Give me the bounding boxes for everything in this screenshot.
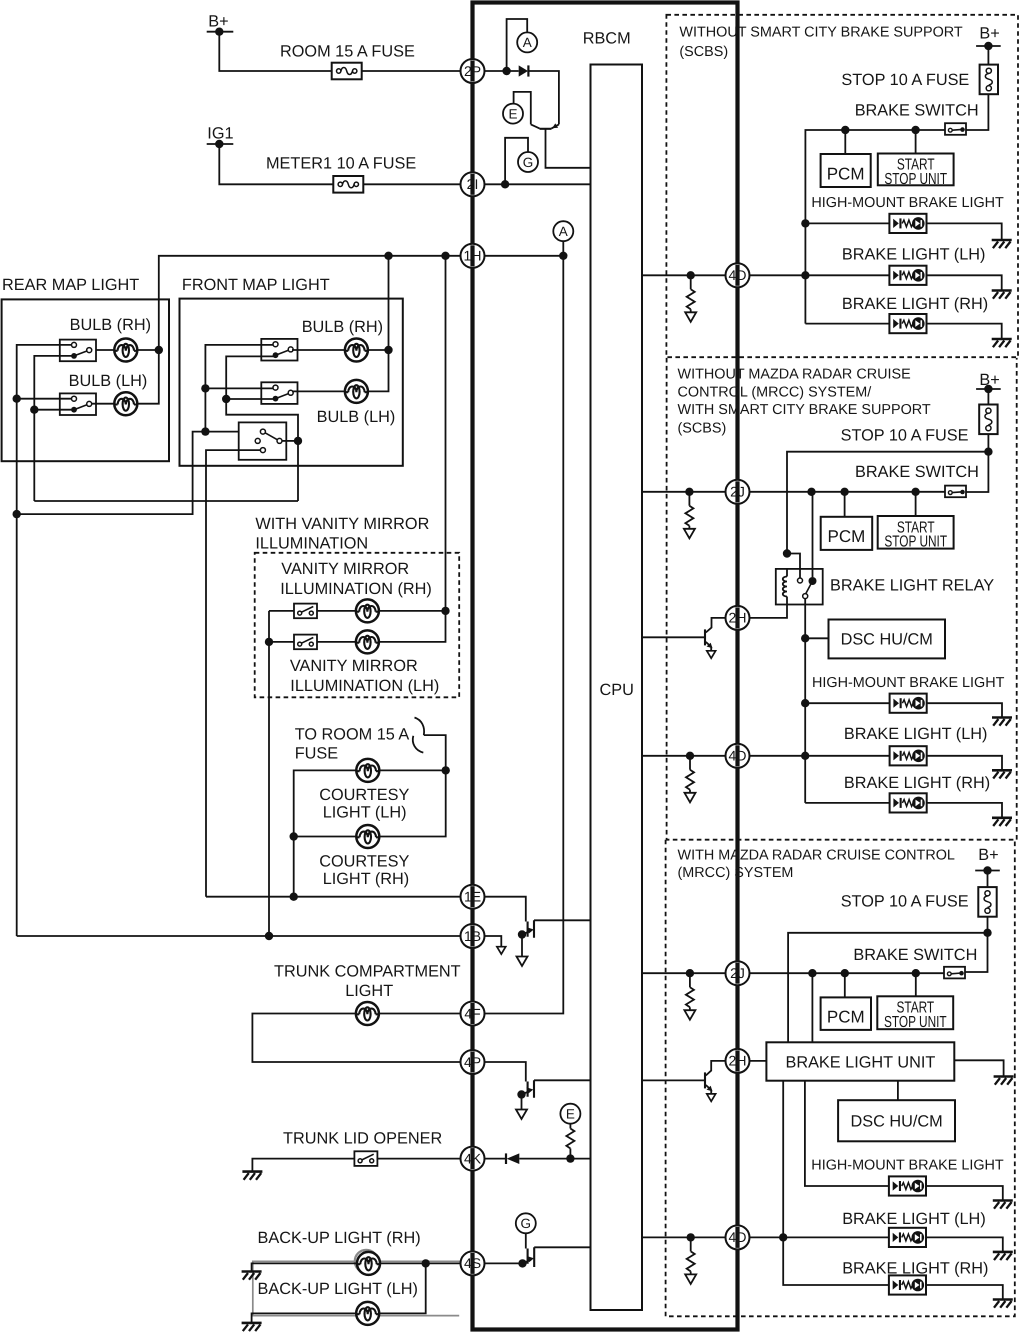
wire front commons vertical — [201, 345, 273, 436]
label high-mount brake light (s2) — [812, 675, 1005, 691]
bulb REAR BULB (RH) — [70, 316, 151, 362]
wire BLU to brake light RH line (s3) — [783, 1081, 1003, 1300]
connector 4F — [461, 1002, 485, 1026]
connector 4D (s1) — [726, 263, 750, 287]
wire brake light LH line 4D (s3) — [750, 1233, 1003, 1252]
led BRAKE LIGHT (RH) (s2) — [890, 793, 927, 812]
ground trunk lid opener — [242, 1172, 262, 1180]
label back-up light RH — [258, 1229, 421, 1247]
label to room 15 a fuse — [295, 726, 410, 763]
resistor R-E (pull-up to E) — [566, 1124, 574, 1159]
svg-text:ROOM 15 A FUSE: ROOM 15 A FUSE — [280, 42, 415, 60]
connector 2J (s2) — [726, 480, 750, 504]
wire junction up to connector A — [507, 19, 528, 71]
wire CPU to 4D line 1 — [642, 271, 726, 279]
fuse STOP 10 A FUSE (s2) — [841, 405, 998, 445]
switch BRAKE SWITCH (s2) — [855, 463, 979, 497]
connector 4P — [461, 1050, 485, 1074]
svg-text:WITH SMART CITY BRAKE SUPPORT: WITH SMART CITY BRAKE SUPPORT — [678, 402, 931, 418]
svg-text:4P: 4P — [464, 1054, 481, 1070]
wire PCM lead (s1) — [844, 130, 846, 154]
ground back-up RH — [242, 1272, 262, 1280]
START STOP UNIT box (s3) — [877, 996, 953, 1031]
svg-text:1B: 1B — [464, 928, 481, 944]
wire 4P to MOSFET gate — [485, 1062, 526, 1082]
svg-text:TRUNK COMPARTMENT: TRUNK COMPARTMENT — [274, 962, 461, 980]
svg-text:WITHOUT MAZDA RADAR CRUISE: WITHOUT MAZDA RADAR CRUISE — [678, 366, 911, 382]
connector 4S — [461, 1251, 485, 1275]
wire fuse to junction and relay feed (s2) — [787, 434, 993, 553]
wire hook to courtesy feed — [424, 735, 446, 770]
relay BRAKE LIGHT RELAY — [776, 492, 994, 605]
wire fuse to brake switch — [967, 94, 989, 130]
fuse ROOM 15 A FUSE — [280, 42, 415, 79]
label brake light RH (s3) — [842, 1259, 988, 1277]
transistor Q6 (2H driver) — [705, 1061, 726, 1101]
wire trunk lid opener to ground — [252, 1159, 354, 1172]
svg-text:WITH VANITY MIRROR: WITH VANITY MIRROR — [255, 515, 429, 533]
wire transistor output to CPU — [546, 129, 591, 168]
bulb REAR BULB (LH) — [69, 372, 148, 415]
wire 4S line inside — [485, 1262, 523, 1264]
wire CPU to 4D line 3 — [642, 1233, 726, 1241]
svg-text:BULB (LH): BULB (LH) — [317, 408, 396, 426]
PCM box (s3) — [821, 997, 871, 1030]
svg-text:A: A — [523, 35, 532, 50]
connector 1H — [461, 244, 485, 268]
connector ref G (circle) — [518, 152, 538, 172]
svg-text:1H: 1H — [464, 248, 482, 264]
svg-text:LIGHT: LIGHT — [345, 982, 393, 1000]
led BRAKE LIGHT (LH) (s3) — [889, 1228, 926, 1247]
REAR MAP LIGHT unit box — [2, 276, 169, 461]
svg-text:PCM: PCM — [828, 527, 866, 546]
wire rear bulb RH right — [137, 349, 159, 351]
wire trunk lid opener to 4K — [377, 1158, 460, 1160]
wire vanity RH row — [269, 610, 356, 612]
wire-break hook symbol — [413, 718, 424, 753]
svg-text:2H: 2H — [729, 1053, 747, 1069]
connector ref E (circle) — [503, 104, 523, 124]
wire B+ to STOP fuse (s3) — [987, 871, 989, 888]
connector 4D (s2) — [726, 744, 750, 768]
wire long vertical A2/1H to 4F line — [485, 256, 564, 1014]
label brake light RH (s2) — [844, 774, 990, 792]
connector 2I — [461, 172, 485, 196]
wire rear RH switch to bulb — [92, 349, 115, 351]
gray bulb back-up RH variant — [355, 1250, 378, 1273]
svg-text:BULB (RH): BULB (RH) — [302, 318, 383, 336]
connector 2J (s3) — [726, 961, 750, 985]
svg-text:HIGH-MOUNT BRAKE LIGHT: HIGH-MOUNT BRAKE LIGHT — [811, 1157, 1004, 1173]
bulb VANITY MIRROR ILLUMINATION (RH) — [356, 599, 379, 622]
connector ref A (circle) — [517, 32, 537, 52]
svg-text:DSC HU/CM: DSC HU/CM — [841, 630, 933, 648]
PCM box (s1) — [821, 154, 871, 187]
svg-text:CONTROL (MRCC) SYSTEM/: CONTROL (MRCC) SYSTEM/ — [678, 384, 872, 400]
svg-text:HIGH-MOUNT BRAKE LIGHT: HIGH-MOUNT BRAKE LIGHT — [812, 675, 1005, 691]
label trunk compartment light — [274, 962, 461, 1000]
FRONT MAP LIGHT unit box — [180, 276, 403, 466]
wire 4S back-up RH line — [252, 1259, 461, 1271]
led BRAKE LIGHT (LH) (s1) — [889, 266, 926, 285]
ground brake light RH (s3) — [993, 1300, 1013, 1308]
wire 2I to CPU — [485, 180, 591, 188]
label brake light LH (s2) — [844, 725, 988, 743]
wire front switched terminals vertical — [222, 356, 302, 501]
wire 1E line — [206, 896, 461, 898]
svg-text:STOP UNIT: STOP UNIT — [884, 534, 947, 551]
wire B+ to ROOM fuse to 2P — [219, 32, 460, 71]
wire courtesy LH row — [290, 766, 450, 901]
wire high-mount line (s1) — [805, 223, 1001, 240]
wire brake light RH line (s2) — [805, 803, 1002, 818]
led HIGH-MOUNT BRAKE LIGHT (s1) — [889, 214, 926, 233]
bulb FRONT BULB (RH) — [302, 318, 383, 361]
ground high-mount (s1) — [992, 240, 1012, 248]
wire rear switched terminals vertical — [30, 356, 74, 501]
wire front LH switch to bulb — [292, 390, 345, 392]
svg-text:BACK-UP LIGHT (LH): BACK-UP LIGHT (LH) — [258, 1280, 418, 1298]
wire mosfet source down — [521, 935, 523, 957]
svg-text:B+: B+ — [979, 24, 999, 42]
svg-text:FRONT MAP LIGHT: FRONT MAP LIGHT — [182, 276, 330, 294]
svg-text:BULB (RH): BULB (RH) — [70, 316, 151, 334]
arrow mosfet source (floating ground) — [516, 1110, 527, 1120]
arrow 1B (floating ground) — [497, 947, 506, 954]
connector 2H (s3) — [726, 1049, 750, 1073]
svg-text:BRAKE SWITCH: BRAKE SWITCH — [853, 946, 977, 964]
RBCM module box — [473, 3, 738, 1330]
connector 1B — [461, 924, 485, 948]
wire 2J to BLU (s3) — [811, 973, 813, 1042]
wire vanity feed vertical from 1H — [379, 256, 449, 642]
wire rear to front switch link — [34, 500, 298, 502]
diode D2 (4K) — [506, 1153, 519, 1164]
svg-text:REAR MAP LIGHT: REAR MAP LIGHT — [2, 276, 139, 294]
mosfet Q4 (4S input) — [518, 1247, 534, 1267]
connector 2H (s2) — [726, 606, 750, 630]
switch vanity LH — [294, 635, 317, 650]
wire vanity RH bulb to junction — [379, 610, 446, 612]
svg-text:FUSE: FUSE — [295, 744, 339, 762]
wire relay coil to 2H (s2) — [750, 605, 788, 618]
wire front map feed vertical — [368, 256, 393, 392]
wire B+ to STOP fuse — [987, 46, 989, 65]
ground brake light LH (s3) — [993, 1252, 1013, 1260]
switch rear map RH — [60, 340, 96, 362]
resistor R2 (2J pulldown) — [684, 492, 695, 539]
section box WITHOUT SCBS (dashed) — [666, 15, 1018, 357]
led HIGH-MOUNT BRAKE LIGHT (s2) — [890, 694, 927, 713]
label high-mount brake light (s1) — [811, 195, 1004, 211]
wire START STOP UNIT lead (s3) — [915, 973, 917, 996]
svg-text:BRAKE LIGHT (LH): BRAKE LIGHT (LH) — [842, 246, 986, 264]
wire front RH switch to bulb — [292, 349, 345, 351]
wire front LH top terminal — [205, 387, 273, 389]
bulb VANITY MIRROR ILLUMINATION (LH) — [356, 630, 379, 653]
fuse STOP 10 A FUSE (s1) — [841, 65, 998, 95]
ground brake light RH (s2) — [992, 818, 1012, 826]
wire 1B line — [17, 932, 461, 940]
svg-text:DSC HU/CM: DSC HU/CM — [850, 1113, 942, 1131]
svg-text:G: G — [523, 155, 534, 170]
svg-text:PCM: PCM — [827, 164, 865, 183]
ground brake light LH (s1) — [992, 291, 1012, 299]
svg-text:STOP UNIT: STOP UNIT — [884, 171, 947, 188]
switch front map RH — [261, 339, 297, 361]
svg-text:PCM: PCM — [827, 1008, 865, 1027]
svg-text:TO ROOM 15 A: TO ROOM 15 A — [295, 726, 410, 744]
resistor R1 (4D pulldown) — [685, 275, 696, 322]
label back-up light LH — [258, 1280, 418, 1298]
svg-text:2J: 2J — [730, 484, 745, 500]
switch TRUNK LID OPENER — [354, 1151, 377, 1166]
wire front door-switch top terminal — [205, 431, 260, 433]
svg-text:STOP 10 A FUSE: STOP 10 A FUSE — [841, 71, 969, 89]
node IG1 — [207, 125, 234, 149]
section box WITH MRCC (dashed) — [666, 840, 1015, 1317]
wire CPU to 2J line 1 — [642, 488, 726, 496]
wire rear LH switch to bulb — [92, 403, 115, 405]
svg-text:HIGH-MOUNT BRAKE LIGHT: HIGH-MOUNT BRAKE LIGHT — [811, 195, 1004, 211]
svg-text:BRAKE LIGHT UNIT: BRAKE LIGHT UNIT — [785, 1053, 935, 1071]
switch BRAKE SWITCH (s3) — [853, 946, 977, 978]
label with vanity mirror illumination — [255, 515, 429, 552]
svg-text:G: G — [521, 1216, 532, 1231]
switch BRAKE SWITCH (s1) — [855, 101, 979, 135]
ground brake light LH (s2) — [992, 770, 1012, 778]
wire BLU right to ground (s3) — [954, 1060, 1003, 1076]
arrow mosfet source (floating ground) — [517, 957, 528, 967]
svg-text:BRAKE LIGHT (RH): BRAKE LIGHT (RH) — [844, 774, 990, 792]
switch front map door 3-position — [239, 422, 298, 459]
bulb BACK-UP LIGHT (RH) — [357, 1252, 380, 1275]
connector ref A2 (circle) — [553, 221, 573, 241]
svg-text:2I: 2I — [467, 176, 479, 192]
svg-text:LIGHT (RH): LIGHT (RH) — [323, 870, 410, 888]
wire 1H line inside RBCM — [485, 252, 568, 260]
label trunk lid opener — [283, 1130, 442, 1148]
svg-text:4D: 4D — [729, 267, 747, 283]
svg-text:COURTESY: COURTESY — [319, 786, 409, 804]
svg-text:BACK-UP LIGHT (RH): BACK-UP LIGHT (RH) — [258, 1229, 421, 1247]
node B+ (section 3) — [975, 846, 1000, 875]
svg-text:CPU: CPU — [600, 681, 634, 699]
wire front commons to rear commons link — [17, 432, 206, 514]
ground high-mount (s3) — [993, 1201, 1013, 1209]
svg-text:4D: 4D — [729, 1229, 747, 1245]
PCM box (s2) — [821, 517, 873, 550]
wire CPU base to transistor Q6 — [642, 1079, 704, 1081]
label brake light LH (s3) — [842, 1210, 986, 1228]
switch front map LH — [261, 382, 297, 404]
wire brake light LH line (s1) — [750, 275, 1002, 290]
wire rear LH switched terminal — [34, 409, 74, 411]
led BRAKE LIGHT (RH) (s3) — [889, 1275, 926, 1294]
wire mosfet drain to CPU — [534, 1246, 590, 1248]
resistor R5 (4D pulldown) — [685, 1237, 696, 1284]
svg-text:2J: 2J — [730, 965, 745, 981]
node B+ (section 2) — [976, 371, 1001, 393]
svg-text:WITHOUT SMART CITY BRAKE SUPPO: WITHOUT SMART CITY BRAKE SUPPORT — [679, 25, 963, 41]
svg-text:ILLUMINATION: ILLUMINATION — [255, 535, 368, 553]
label vanity mirror illumination LH — [290, 657, 439, 695]
connector 1E — [461, 885, 485, 909]
gray wire back-up RH variant — [253, 1261, 461, 1315]
wire mosfet drain to CPU — [534, 919, 591, 921]
wire back-up LH line — [252, 1263, 426, 1323]
wire CPU to 4D line 2 — [642, 752, 726, 760]
svg-text:BRAKE LIGHT RELAY: BRAKE LIGHT RELAY — [830, 577, 994, 595]
wire to DSC HU/CM (s2) — [805, 637, 828, 639]
resistor R4 (2J pulldown) — [684, 973, 695, 1020]
wire mosfet drain to CPU — [534, 1079, 591, 1081]
transistor Q1 — [531, 123, 559, 128]
wire rear commons vertical to 1B — [13, 345, 72, 936]
wire 1B to arrow — [485, 936, 502, 947]
switch rear map LH — [60, 393, 96, 415]
wire rear LH top terminal — [17, 398, 72, 400]
svg-text:(SCBS): (SCBS) — [678, 420, 727, 436]
wire transistor E-lead to connector E — [514, 92, 531, 125]
svg-text:BULB (LH): BULB (LH) — [69, 372, 148, 390]
svg-text:ILLUMINATION (RH): ILLUMINATION (RH) — [280, 580, 432, 598]
svg-text:VANITY MIRROR: VANITY MIRROR — [290, 657, 418, 675]
DSC HU/CM box (s2) — [829, 620, 946, 659]
svg-text:BRAKE LIGHT (LH): BRAKE LIGHT (LH) — [842, 1210, 986, 1228]
ground high-mount (s2) — [992, 718, 1012, 726]
section box WITHOUT MRCC / WITH SCBS (dashed) — [667, 358, 1017, 840]
CPU block — [591, 65, 643, 1311]
node B+ (left) — [207, 13, 234, 36]
wire brake switch line 2J (s3) — [750, 969, 944, 977]
wire BLU to DSC HU/CM (s3) — [897, 1081, 899, 1101]
svg-text:4D: 4D — [729, 748, 747, 764]
bulb COURTESY LIGHT (RH) — [319, 825, 409, 888]
svg-text:4K: 4K — [464, 1150, 482, 1166]
svg-text:4F: 4F — [464, 1005, 480, 1021]
svg-text:STOP 10 A FUSE: STOP 10 A FUSE — [841, 893, 969, 911]
ground BLU right (s3) — [994, 1077, 1014, 1085]
wire START STOP UNIT lead (s1) — [915, 130, 917, 154]
wire courtesy RH row — [294, 770, 446, 836]
label brake light RH (s1) — [842, 295, 988, 313]
wire IG1 to METER1 fuse to 2I — [219, 144, 460, 184]
svg-text:1E: 1E — [464, 889, 481, 905]
svg-text:TRUNK LID OPENER: TRUNK LID OPENER — [283, 1130, 442, 1148]
bulb TRUNK COMPARTMENT LIGHT — [356, 1002, 379, 1025]
svg-text:COURTESY: COURTESY — [319, 852, 409, 870]
led BRAKE LIGHT (RH) (s1) — [889, 314, 926, 333]
node B+ (section 1) — [976, 24, 1001, 50]
DSC HU/CM box (s3) — [838, 1100, 955, 1141]
BRAKE LIGHT UNIT box — [766, 1042, 954, 1080]
diode D1 — [519, 65, 529, 76]
mosfet Q2 (1E driver) — [518, 920, 534, 938]
connector ref E2 (circle) — [560, 1104, 580, 1124]
wire B+ to STOP fuse (s2) — [987, 389, 989, 405]
wire brake light LH line (s2) — [750, 756, 1003, 771]
wire front LH switched terminal — [226, 398, 275, 400]
ground brake light RH (s1) — [992, 339, 1012, 347]
wire G to 2I line — [505, 138, 528, 185]
transistor Q5 (2H driver) — [705, 618, 726, 658]
svg-text:STOP UNIT: STOP UNIT — [884, 1014, 947, 1031]
wire high-mount line (s2) — [805, 703, 1002, 717]
wire 1E to MOSFET gate — [485, 897, 526, 922]
fuse STOP 10 A FUSE (s3) — [841, 887, 997, 917]
wire 2P junction to diode, inside RBCM — [485, 67, 519, 75]
wire relay output vertical (s2) — [801, 599, 809, 803]
wire fuse to junction and BLU feed (s3) — [788, 917, 992, 1043]
connector 4K — [461, 1147, 485, 1171]
svg-text:E: E — [566, 1107, 575, 1122]
wire rear bulbs feed vertical — [137, 346, 163, 404]
wire START STOP UNIT lead (s2) — [915, 492, 917, 516]
svg-text:STOP 10 A FUSE: STOP 10 A FUSE — [841, 427, 969, 445]
wire front bulb RH right — [368, 349, 389, 351]
wire 1H line outside to map lights — [159, 252, 461, 350]
wire 4K line inside — [485, 1154, 591, 1162]
wire G2 to mosfet gate — [525, 1233, 527, 1248]
svg-text:B+: B+ — [978, 846, 998, 864]
svg-text:VANITY MIRROR: VANITY MIRROR — [281, 560, 409, 578]
wire mosfet source down — [521, 1095, 523, 1110]
wire vanity LH row — [269, 641, 356, 643]
label brake light LH (s1) — [842, 246, 986, 264]
START STOP UNIT box (s1) — [878, 154, 954, 188]
led BRAKE LIGHT (LH) (s2) — [890, 746, 927, 765]
wire CPU to 2J line 2 — [642, 969, 726, 977]
ground back-up LH — [242, 1323, 262, 1331]
svg-text:METER1 10 A FUSE: METER1 10 A FUSE — [266, 154, 416, 172]
vanity mirror dashed box — [255, 553, 460, 698]
mosfet Q3 (4P driver) — [517, 1080, 534, 1098]
svg-text:ILLUMINATION (LH): ILLUMINATION (LH) — [290, 677, 439, 695]
wire BLU to high-mount line (s3) — [805, 1081, 1003, 1201]
wire diode to transistor collector — [528, 71, 559, 124]
label vanity mirror illumination RH — [280, 560, 432, 598]
wire brake switch line 2J (s2) — [750, 488, 945, 496]
wire CPU base to transistor Q5 — [642, 636, 704, 638]
svg-text:BRAKE SWITCH: BRAKE SWITCH — [855, 101, 979, 119]
resistor R3 (4D pulldown) — [685, 756, 696, 803]
label high-mount brake light (s3) — [811, 1157, 1004, 1173]
svg-text:IG1: IG1 — [207, 125, 233, 143]
connector 2P — [461, 59, 485, 83]
svg-text:(SCBS): (SCBS) — [679, 44, 728, 60]
wire PCM lead (s2) — [844, 492, 846, 517]
svg-text:BRAKE SWITCH: BRAKE SWITCH — [855, 463, 979, 481]
svg-text:2P: 2P — [464, 63, 481, 79]
wire trunk light loop — [252, 1014, 460, 1063]
connector 4D (s3) — [726, 1225, 750, 1249]
svg-text:LIGHT (LH): LIGHT (LH) — [323, 804, 407, 822]
wire brake light RH line (s1) — [805, 324, 1001, 339]
svg-text:E: E — [508, 106, 517, 121]
svg-text:BRAKE LIGHT (RH): BRAKE LIGHT (RH) — [842, 295, 988, 313]
svg-text:A: A — [559, 224, 568, 239]
bulb FRONT BULB (LH) — [317, 380, 396, 426]
svg-text:WITH MAZDA RADAR CRUISE CONTRO: WITH MAZDA RADAR CRUISE CONTROL — [678, 847, 955, 863]
wire A2 to 1H junction — [562, 241, 564, 256]
wire vanity left vertical — [265, 611, 273, 936]
wire PCM lead (s3) — [844, 973, 846, 997]
svg-text:2H: 2H — [729, 610, 747, 626]
switch vanity RH — [294, 604, 317, 619]
wire trunk bulb to 4F — [379, 1013, 461, 1015]
